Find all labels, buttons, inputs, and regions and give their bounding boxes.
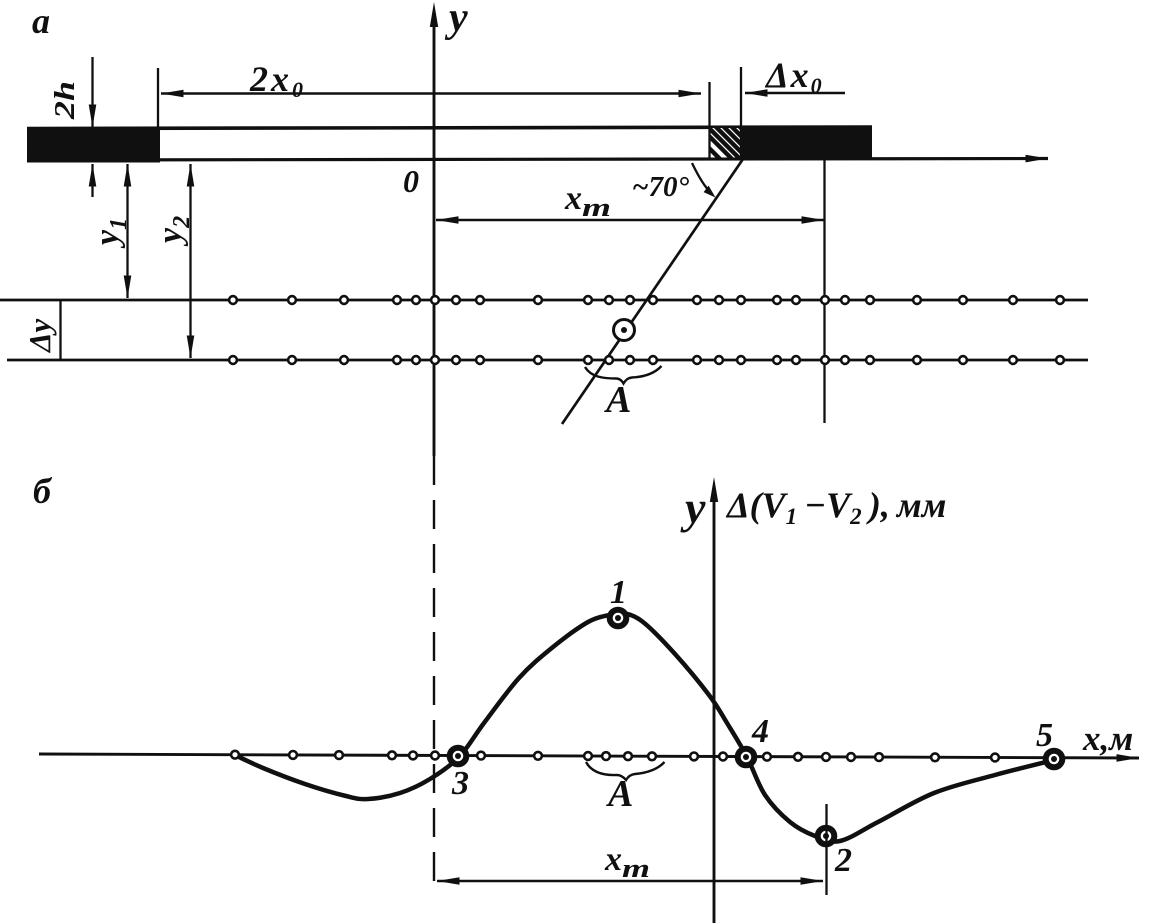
end point 5 [1046,751,1063,768]
svg-text:0: 0 [403,163,419,199]
svg-text:4: 4 [751,713,769,750]
svg-text:A: A [606,773,633,815]
geophone circles on line 1 [229,296,1064,304]
label b (part marker) [33,471,53,511]
label 4 [751,713,769,750]
dimension xm (part a) [436,219,824,222]
zero-cross point 4 [738,749,755,766]
dashed continuation of y axis into part b [433,456,435,890]
dimension delta x0 (arrow from right) [745,92,845,95]
circled source point on slanted line [614,320,635,341]
label ~70deg [632,171,690,203]
dimension 2h upper arrow [91,57,93,127]
black body left [27,128,160,163]
y axis label (part b) [680,482,706,533]
label 2 [834,842,852,879]
svg-text:1: 1 [610,574,627,611]
geophone circles on line 2 [229,356,1064,364]
svg-text:2h: 2h [49,81,80,120]
dimension 2h lower arrow [91,164,93,197]
svg-text:5: 5 [1036,717,1053,754]
survey line 1 (y1 level) [0,299,1088,302]
svg-text:A: A [604,379,631,421]
geophone circles on part b axis [231,751,999,762]
black body right [741,126,872,159]
svg-text:Δ(V1 −V2 ), мм: Δ(V1 −V2 ), мм [725,485,946,529]
label a (part marker) [32,1,50,41]
label A (part a) [604,379,631,421]
label A (part b) [606,773,633,815]
angle arc ~70 [692,163,716,198]
svg-text:x,м: x,м [1082,719,1133,758]
svg-text:a: a [32,1,50,41]
dimension 2x0 [161,92,701,95]
x axis (part b) [39,754,1139,758]
label xm (part a) [564,180,611,222]
svg-text:3: 3 [451,765,469,802]
underbrace A (part b) [586,762,665,780]
underbrace A (part a) [585,366,662,384]
svg-text:~70°: ~70° [632,171,690,203]
y axis (part b) [710,477,718,923]
dimension y2 [189,164,191,358]
axis title delta(V1-V2),mm [725,485,946,529]
dimension y1 [126,164,128,298]
svg-text:Δy: Δy [22,319,57,354]
y axis (part a) [430,2,438,456]
label 3 [451,765,469,802]
slab top boundary line [27,127,872,129]
zero-cross point 3 [450,748,467,765]
label 5 [1036,717,1053,754]
label 2h (rotated) [49,81,80,120]
y axis label (part a) [444,0,468,41]
label delta y (rotated) [22,319,57,354]
extremum point 1 [610,610,627,627]
label 1 [610,574,627,611]
svg-text:б: б [33,471,53,511]
label y2 (rotated) [152,216,195,247]
extremum point 2 [818,828,835,845]
dimension xm (part b) [437,880,823,883]
tick at x0 right (hatch left edge) [708,82,710,158]
x axis / slab bottom boundary (part a) [27,159,1048,161]
label delta x0 [764,55,824,98]
x axis label x,m [1082,719,1133,758]
delta y tick between survey lines [59,300,61,359]
hatched cell (delta x0) [693,124,773,160]
tick left of 2x0 span [157,68,159,129]
slanted borehole line [562,159,743,424]
tick at hatch right edge [740,67,742,159]
label xm (part b) [604,841,650,883]
label 2x0 [249,59,306,102]
anomaly curve [237,613,1054,842]
origin label 0 [403,163,419,199]
svg-text:2: 2 [834,842,852,879]
survey line 2 (y2 level) [7,359,1088,362]
label y1 (rotated) [89,218,132,249]
tick through point 2 [825,804,827,895]
tick right end of xm (part a) [823,159,825,423]
